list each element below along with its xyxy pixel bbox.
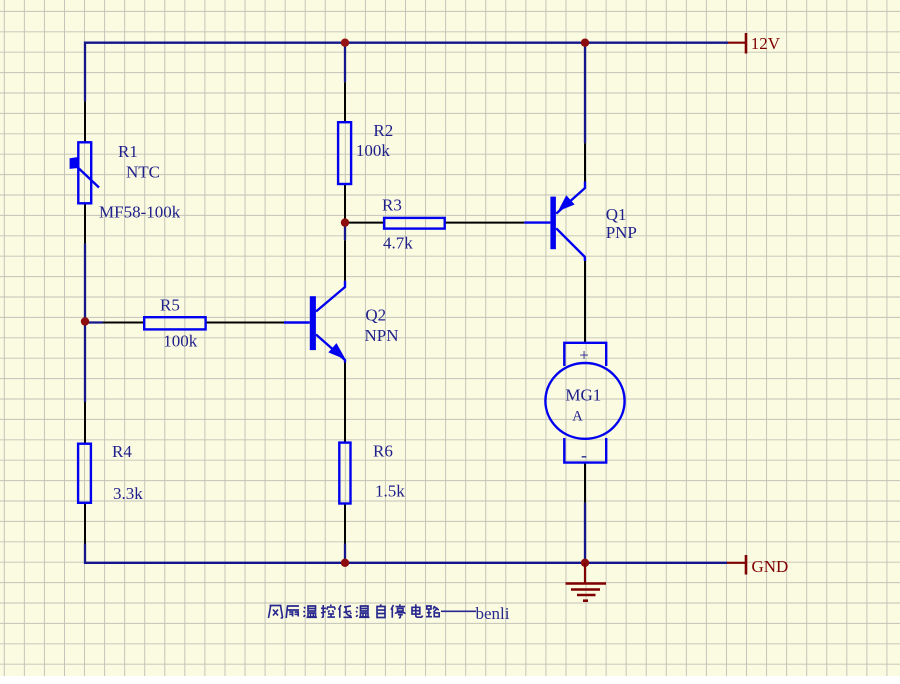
svg-text:GND: GND <box>752 557 789 576</box>
svg-text:R4: R4 <box>112 442 132 461</box>
node R2-R3 junction <box>341 218 349 226</box>
white strip below sheet <box>0 676 900 679</box>
power port 12V <box>728 33 746 54</box>
char ting <box>391 604 405 617</box>
node GND-motor junction <box>581 559 589 567</box>
char feng <box>269 606 283 619</box>
title dash and benli <box>441 610 476 612</box>
pin R2 top <box>344 82 346 122</box>
wire bottom rail GND net <box>85 544 727 563</box>
pin R2 bottom <box>344 184 346 223</box>
svg-text:R2: R2 <box>373 121 393 140</box>
resistor R1 thermistor body <box>70 142 99 203</box>
resistor R5 body <box>144 317 205 329</box>
svg-text:100k: 100k <box>163 332 198 351</box>
resistor R2 body <box>338 122 351 184</box>
node GND-R6 junction <box>341 559 349 567</box>
char shan <box>286 606 299 618</box>
pin R5 left <box>103 322 144 324</box>
svg-text:benli: benli <box>476 604 510 623</box>
svg-text:R3: R3 <box>382 196 402 215</box>
pin Q1 emitter top <box>584 143 586 181</box>
wire Q1 emitter to rail <box>584 43 586 144</box>
svg-text:NPN: NPN <box>365 326 399 345</box>
pin Q2 collector <box>344 240 346 280</box>
wire R2 top <box>344 43 346 83</box>
svg-text:NTC: NTC <box>126 163 160 182</box>
label R3 <box>382 196 413 253</box>
label MG1 <box>565 346 601 466</box>
char wen <box>304 606 318 617</box>
svg-text:Q2: Q2 <box>365 306 386 325</box>
wire R5 left <box>85 321 103 323</box>
node 12V-R2 junction <box>341 39 349 47</box>
svg-text:4.7k: 4.7k <box>383 234 413 253</box>
svg-text:-: - <box>581 445 587 465</box>
pin R3 right <box>445 222 525 224</box>
wire R6 bottom <box>344 544 346 563</box>
svg-text:R1: R1 <box>118 142 138 161</box>
svg-text:+: + <box>579 346 589 365</box>
label R1 <box>99 142 181 222</box>
resistor R6 body <box>339 443 350 504</box>
wire left rail mid <box>84 243 86 402</box>
node left rail R5 junction <box>81 317 89 325</box>
pin R6 bottom <box>344 504 346 544</box>
svg-text:12V: 12V <box>751 34 781 53</box>
pin Q2 emitter to R6 <box>344 362 346 443</box>
pin R4 top <box>84 402 86 444</box>
char lu <box>426 606 439 617</box>
wire motor to rail <box>584 503 586 563</box>
pin R3 left <box>345 222 384 224</box>
wire top rail 12V net <box>85 43 728 101</box>
svg-text:1.5k: 1.5k <box>375 482 405 501</box>
svg-text:100k: 100k <box>356 141 391 160</box>
svg-text:A: A <box>572 409 583 425</box>
pin Q1 collector to motor <box>584 261 586 343</box>
svg-text:MG1: MG1 <box>565 386 601 405</box>
pin R5 right <box>206 322 284 324</box>
wire node B below junction <box>344 223 346 241</box>
label R5 <box>160 296 198 351</box>
motor MG1 <box>545 343 624 463</box>
char di <box>339 605 353 618</box>
svg-text:PNP: PNP <box>606 223 637 242</box>
pin motor bottom <box>584 463 586 503</box>
char kong <box>321 605 335 618</box>
pin R1 top <box>84 101 86 142</box>
label Q1 <box>606 205 637 242</box>
pin R1 bottom <box>84 203 86 243</box>
transistor Q1 PNP <box>524 182 585 262</box>
label R2 <box>356 121 393 160</box>
svg-text:MF58-100k: MF58-100k <box>99 203 181 222</box>
resistor R3 body <box>384 218 445 229</box>
transistor Q2 NPN <box>284 281 345 363</box>
svg-text:R6: R6 <box>373 442 393 461</box>
title text: 风扇温控低温自停电路 (drawn glyphs) <box>269 604 440 618</box>
ground symbol <box>566 563 607 601</box>
pin R4 bottom <box>84 503 86 544</box>
resistor R4 body <box>78 444 91 503</box>
char dian <box>412 604 422 617</box>
svg-text:Q1: Q1 <box>606 205 627 224</box>
power port GND <box>727 555 746 575</box>
char wen2 <box>356 606 370 617</box>
node 12V-Q1 junction <box>581 39 589 47</box>
svg-text:3.3k: 3.3k <box>113 484 143 503</box>
svg-text:R5: R5 <box>160 296 180 315</box>
label Q2 <box>365 306 399 346</box>
label R6 <box>373 442 405 501</box>
char zi <box>377 604 385 617</box>
label R4 <box>112 442 143 503</box>
